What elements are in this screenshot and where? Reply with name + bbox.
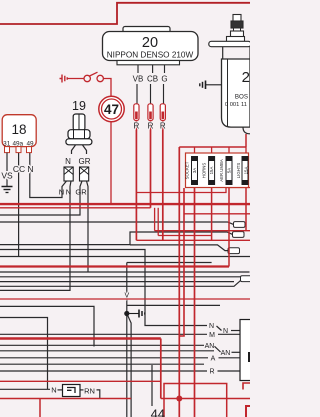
red row 266.5 thick [0,265,229,267]
wire 47 to bus [110,122,112,204]
switch S red [60,72,112,96]
svg-text:RN: RN [84,387,95,396]
wire row R 370.9 [0,370,207,372]
wire row 245 to lug [130,245,228,251]
connector leads [62,181,88,190]
wire row 317.5 [0,318,48,390]
wire row 281 [0,281,234,283]
junction dot V [124,311,129,316]
wire row 305.4 right [127,304,220,306]
terminal R1 [134,104,139,121]
wire fuse4 bottom [245,185,247,231]
pin 31 [5,147,10,153]
wire row 249.5 to N row [0,250,207,326]
wire fuse1 bottom long [194,185,196,417]
wire N slant [217,326,222,331]
wire row 285.5 slant to lug [0,281,241,287]
connector box right [240,320,253,381]
wire N jog from 18 [30,153,62,198]
ground chassis at V [127,310,145,318]
svg-text:18: 18 [11,122,26,137]
body [222,59,251,127]
wire fuse3 down [228,185,230,267]
red step 158.2 [157,208,159,236]
svg-text:VS: VS [1,171,13,181]
connector GR [80,167,89,181]
red detour 44 [164,384,227,417]
pickup 19 [66,114,92,145]
wire row 276 to lug [0,276,241,278]
leads from 19 [72,145,87,154]
black wire rows [0,153,250,417]
svg-text:19: 19 [72,99,86,113]
red bracket bottom right [243,383,250,390]
svg-text:NIPPON DENSO 210W: NIPPON DENSO 210W [107,51,194,60]
node 47 circle [99,96,124,121]
svg-text:0 001 11: 0 001 11 [225,102,247,108]
wire fuse2 bottom [211,185,213,241]
red long feed 179.3 [178,147,180,417]
svg-text:AN: AN [205,343,215,350]
wire row M 335.4 [0,333,207,335]
svg-text:R: R [148,122,154,131]
svg-text:R: R [209,369,214,376]
neck [222,47,224,59]
wire to N diode [0,388,50,390]
ground top-left [2,180,13,193]
wire VS to ground [6,153,8,180]
red wires [0,120,250,417]
svg-text:CB: CB [147,75,158,84]
svg-text:15A: 15A [243,167,248,175]
svg-text:N: N [66,188,71,197]
wire N2 down [0,190,70,290]
bottom cap [243,127,250,134]
svg-text:R: R [160,122,166,131]
fuse 4 LIGHTS [236,157,248,185]
red junction dot [176,396,182,402]
flange [209,41,251,46]
wire 152 down [151,365,153,406]
terminal stack [233,15,241,22]
ground battery [200,81,222,90]
wire V down [126,263,128,417]
wire V slant [127,314,131,417]
svg-text:N: N [27,164,33,174]
fuse stubs [194,147,196,154]
red row 213.8 [184,213,250,215]
svg-text:GR: GR [79,157,91,166]
svg-text:AER.UMBA: AER.UMBA [219,159,224,182]
svg-text:HORNS: HORNS [202,163,207,179]
svg-text:N: N [59,188,64,197]
diode N-RN [51,385,95,397]
red vert 183.5 [179,188,184,336]
wire N2 into box [231,330,241,332]
fuse 3 AER [219,157,232,185]
svg-text:N: N [223,328,228,335]
pin 49 [27,147,32,153]
wire row AN 346.5 [0,344,204,346]
fusebox [186,153,249,188]
red vert 160.8 [160,339,162,399]
wire AN slant [215,346,221,352]
fuse 2 HORNS [202,157,215,185]
lug row222 [234,222,246,228]
wire row 365 [0,363,204,365]
wire cylinder to bus [245,134,247,147]
wire R1 branch 192.5 [136,188,250,193]
svg-text:N: N [209,323,214,330]
wire branch 306-347 [0,306,94,346]
wire RN bracket [97,390,100,399]
wire AN2 into box [232,351,242,353]
svg-text:CC: CC [13,164,25,174]
pins VB CB G [137,65,165,111]
svg-text:21: 21 [242,69,250,86]
svg-text:G: G [161,75,167,84]
wire R1 [135,120,137,240]
red row 207.8 [0,207,151,209]
red row 230.7 [155,230,250,232]
lug row232 [233,232,245,238]
wire row 222 [0,222,234,224]
wire red top feed [0,3,250,24]
svg-text:VB: VB [133,75,144,84]
svg-text:SOCKET: SOCKET [185,161,190,179]
svg-text:5A: 5A [226,168,231,173]
wire row 256.5 [0,256,250,258]
svg-text:LIGHTS: LIGHTS [236,163,241,179]
red row 339 thick [0,337,161,339]
fuse 1 SOCKET [185,157,198,185]
wire R3 [162,120,164,240]
svg-text:15A: 15A [209,167,214,175]
alternator 20 [103,27,199,65]
wire R to box [218,370,241,372]
wire row A 359.5 [0,357,208,359]
red row 401.5 left [0,398,131,400]
wire row 244 [0,244,130,246]
red fuse bus [179,146,246,148]
regulator 18 [2,115,36,153]
svg-text:47: 47 [104,102,119,117]
red row 299 [0,298,250,300]
red row 235.5 [158,235,211,237]
svg-text:20: 20 [142,35,158,51]
wire M to box [218,333,240,335]
lug row245 [228,248,240,254]
red bus 204 [0,203,250,205]
svg-text:3A: 3A [192,168,197,173]
svg-text:N: N [65,157,71,166]
terminal R2 [148,104,153,121]
red row 398.5 [161,398,250,400]
svg-text:N: N [51,385,56,394]
red row 240.3 [136,239,250,241]
wire row 352.5 [0,350,214,352]
svg-text:BOS: BOS [235,94,248,101]
wire row 262.5 [127,262,212,264]
svg-text:M: M [209,332,215,339]
svg-text:GR: GR [75,188,87,197]
svg-text:A: A [211,356,216,363]
wire R2 [150,120,152,207]
svg-text:AN: AN [221,350,231,357]
wire GR2 down [87,190,89,272]
wire row 271.5 [0,271,250,273]
pin 49a [16,147,21,153]
wire row 232 [130,232,233,245]
wire A to box [219,357,241,359]
terminal R3 [160,104,165,121]
connector N [64,167,73,181]
wire GR jog [0,190,80,215]
red row 374 [0,380,161,382]
svg-text:R: R [134,122,140,131]
wire CC down [18,153,20,257]
battery 21 [209,15,251,134]
svg-text:44: 44 [151,407,165,417]
red step 154.6 [154,208,156,231]
lug rows276 [241,276,253,282]
red corner down 40 [39,399,41,417]
